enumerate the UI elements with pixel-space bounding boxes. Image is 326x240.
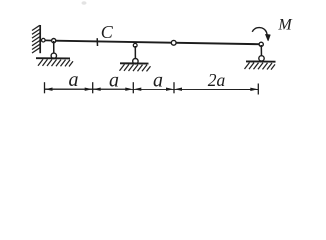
svg-text:a: a [69,69,79,91]
pin under beam at middle support [133,43,137,47]
dimension line [45,88,259,90]
label C [101,22,114,42]
pin at beam right end [259,42,263,46]
hinge on beam [171,40,176,45]
label M [277,16,293,33]
scan smudge [82,1,87,5]
beam [55,41,259,45]
ground line right support [246,60,276,62]
svg-text:2a: 2a [208,70,226,90]
ground line middle support [120,62,149,64]
svg-text:a: a [109,70,119,92]
svg-text:M: M [277,16,293,33]
dimension arrowheads [45,88,258,92]
label 2a (segment 4) [208,70,226,90]
ground pin of right support [259,56,264,61]
ground hatching left support [38,59,73,66]
pin at beam left end [52,39,56,43]
ground pin of middle support [133,59,138,64]
dimension ticks [45,82,259,94]
vertical link of middle support [134,46,136,61]
ground pin of left support [51,53,56,58]
link wall-pin to beam-pin [43,39,54,41]
wall hatching (left fixed support) [32,25,40,53]
label a (segment 1) [69,69,79,91]
vertical link of right support [260,45,262,58]
label a (segment 3) [153,70,163,92]
ground hatching middle support [120,64,151,71]
wall line [39,25,41,53]
moment M arc arrow [252,28,270,41]
pin on wall [42,38,46,42]
label a (segment 2) [109,70,119,92]
ground line left support [36,57,70,59]
tick at point C [96,38,98,46]
vertical link of left ground support [53,41,55,56]
ground hatching right support [245,63,276,70]
svg-text:a: a [153,70,163,92]
svg-text:C: C [101,22,114,42]
